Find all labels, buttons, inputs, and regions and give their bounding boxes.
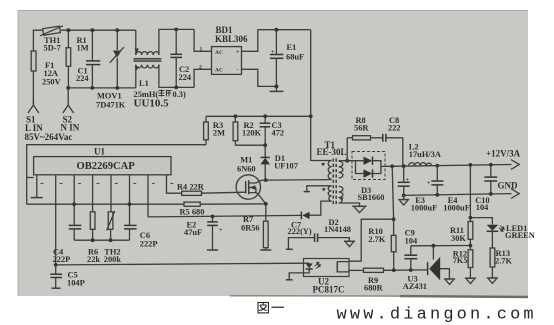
svg-text:1: 1 bbox=[200, 47, 203, 53]
shunt regulator U3 AZ431 bbox=[403, 246, 450, 291]
node R11/R12 junction bbox=[469, 244, 473, 248]
svg-text:AC: AC bbox=[215, 50, 223, 56]
svg-text:U1: U1 bbox=[94, 147, 105, 157]
svg-text:+: + bbox=[271, 49, 275, 55]
MOSFET M1 bbox=[236, 155, 266, 204]
wire: secondary bottom to ground bbox=[339, 203, 360, 206]
svg-text:2M: 2M bbox=[213, 128, 225, 137]
wire: C4/R6/TH2/C6 bottom rail bbox=[74, 238, 129, 242]
svg-text:472: 472 bbox=[272, 128, 285, 137]
capacitor C9 bbox=[404, 229, 418, 270]
capacitor C8 bbox=[383, 116, 403, 166]
U1 pin2 stub (FB line down) bbox=[55, 175, 57, 265]
node E3 bottom bbox=[402, 194, 406, 198]
ground (R13, chassis) bbox=[487, 278, 498, 283]
node pin6 bbox=[128, 202, 132, 206]
svg-text:UF107: UF107 bbox=[274, 162, 298, 171]
node R10 bottom bbox=[392, 268, 396, 272]
ground (C7 left bar) bbox=[286, 248, 293, 250]
ground (U2 bar) bbox=[286, 279, 293, 281]
node E2 bbox=[211, 215, 215, 219]
svg-text:104: 104 bbox=[405, 236, 418, 245]
capacitor C1 bbox=[76, 30, 100, 87]
U1 pin1 stub bbox=[36, 175, 38, 198]
diode D2 bbox=[301, 212, 351, 235]
svg-text:SB1660: SB1660 bbox=[358, 193, 385, 202]
capacitor C6 bbox=[124, 204, 157, 248]
wire: drain to primary bbox=[266, 179, 332, 182]
capacitor E1 bbox=[270, 28, 304, 87]
capacitor E3 bbox=[398, 166, 438, 213]
wire: FB line to optocoupler bbox=[56, 263, 304, 265]
wire: BD1 + output bbox=[242, 30, 311, 52]
terminal S1 bbox=[25, 98, 43, 133]
svg-text:+: + bbox=[427, 181, 431, 187]
svg-text:1M: 1M bbox=[77, 44, 89, 53]
resistor R8 bbox=[347, 116, 382, 140]
capacitor C5 bbox=[50, 265, 84, 288]
dual diode D3 bbox=[347, 152, 392, 203]
svg-text:+: + bbox=[406, 177, 410, 183]
svg-text:EE-30L: EE-30L bbox=[317, 147, 347, 157]
wire: to BD1 pin2 bbox=[194, 69, 211, 87]
node C1 bottom bbox=[91, 86, 95, 90]
svg-text:224: 224 bbox=[76, 74, 89, 83]
svg-text:GND: GND bbox=[498, 180, 519, 190]
thermistor TH2 bbox=[104, 211, 122, 264]
node C9 bottom bbox=[409, 268, 413, 272]
wire: U1 left stub bbox=[27, 177, 34, 179]
U1 pin8 stub (gate drive) bbox=[167, 175, 182, 193]
svg-text:30K: 30K bbox=[451, 234, 466, 243]
wire: D3 node down to feedback bbox=[392, 166, 393, 219]
capacitor C3 bbox=[260, 114, 284, 145]
svg-text:2: 2 bbox=[199, 65, 202, 71]
node U3 ref bbox=[432, 244, 436, 248]
node M1 source / R7 bbox=[264, 202, 268, 206]
inductor L2 bbox=[409, 142, 441, 166]
transformer T1 bbox=[317, 140, 347, 205]
ground (C7 right, chassis) bbox=[344, 241, 355, 246]
node R10 top bbox=[392, 217, 396, 221]
wire: sense/feedback line y204 bbox=[27, 203, 184, 205]
node L2 left / E3 / C8 bbox=[402, 164, 406, 168]
U1 pin7 stub (VCC) bbox=[147, 175, 149, 217]
svg-text:68uF: 68uF bbox=[286, 52, 304, 61]
svg-text:+: + bbox=[219, 228, 223, 234]
ground (secondary, chassis) bbox=[352, 206, 366, 212]
node C1 top bbox=[91, 28, 95, 32]
resistor R1 bbox=[66, 30, 89, 88]
wire: L input vertical bbox=[33, 30, 42, 105]
U1 pin3 stub bbox=[73, 175, 75, 204]
ground (U1 pin1 bar) bbox=[31, 197, 43, 199]
svg-text:2.7K: 2.7K bbox=[368, 235, 385, 244]
U1 pin6 stub bbox=[129, 175, 131, 204]
wire: top-left rail bbox=[61, 29, 136, 31]
wire: bottom-left rail bbox=[68, 87, 136, 89]
label GND with arrow bbox=[498, 180, 520, 198]
node E4 bottom bbox=[435, 193, 439, 197]
ground (E3, chassis) bbox=[398, 195, 409, 205]
svg-text:UU10.5: UU10.5 bbox=[134, 98, 170, 110]
ground (E1, primary bar) bbox=[270, 84, 284, 91]
capacitor C7 bbox=[288, 220, 350, 249]
node C3/D1/R2 bbox=[263, 143, 267, 147]
node M1 drain bbox=[264, 178, 268, 182]
optocoupler U2 PC817C bbox=[304, 259, 350, 295]
svg-text:0.3): 0.3) bbox=[173, 90, 186, 99]
svg-text:L1: L1 bbox=[139, 79, 149, 88]
node C5 / FB bbox=[54, 263, 58, 267]
svg-text:222P: 222P bbox=[53, 255, 71, 264]
svg-text:R4 22R: R4 22R bbox=[177, 182, 205, 191]
svg-text:222P: 222P bbox=[140, 239, 158, 248]
node HV / clamp rail bbox=[309, 114, 313, 118]
thermistor TH1 bbox=[40, 26, 63, 53]
resistor R2 bbox=[233, 114, 265, 145]
svg-text:222(Y): 222(Y) bbox=[288, 227, 312, 236]
svg-text:85V~264Vac: 85V~264Vac bbox=[25, 132, 73, 142]
LED LED1 bbox=[487, 224, 535, 248]
capacitor C4 bbox=[53, 204, 82, 264]
svg-text:120K: 120K bbox=[242, 129, 262, 138]
resistor R4 bbox=[177, 182, 246, 195]
svg-text:17uH/3A: 17uH/3A bbox=[409, 150, 441, 159]
node S2 top bbox=[66, 86, 70, 90]
wire: clamp rail bbox=[206, 115, 311, 117]
svg-text:224: 224 bbox=[179, 73, 192, 82]
capacitor E4 bbox=[427, 166, 470, 213]
varistor MOV1 bbox=[96, 30, 126, 109]
svg-text:5D-7: 5D-7 bbox=[44, 44, 61, 53]
svg-text:1000uF: 1000uF bbox=[443, 204, 470, 213]
common-mode choke L1 bbox=[134, 29, 195, 109]
resistor R12 bbox=[453, 250, 473, 278]
svg-text:KBL306: KBL306 bbox=[215, 34, 248, 44]
svg-text:6N60: 6N60 bbox=[237, 165, 256, 174]
svg-text:+12V/3A: +12V/3A bbox=[486, 149, 521, 159]
resistor R10 bbox=[368, 219, 396, 270]
svg-text:7K5: 7K5 bbox=[453, 256, 468, 265]
resistor R9 bbox=[349, 268, 428, 293]
wire: U2 cathode to ground bbox=[289, 273, 303, 280]
terminal S2 bbox=[61, 88, 80, 133]
resistor R3 bbox=[204, 116, 225, 144]
resistor R5 bbox=[180, 202, 266, 216]
svg-text:7D471K: 7D471K bbox=[96, 101, 126, 110]
wire: aux top to ground bbox=[307, 186, 332, 192]
resistor R11 bbox=[450, 218, 473, 250]
svg-text:47uF: 47uF bbox=[184, 228, 202, 237]
svg-text:GREEN: GREEN bbox=[505, 231, 535, 240]
svg-text:MOV1: MOV1 bbox=[97, 92, 122, 101]
svg-text:AZ431: AZ431 bbox=[403, 282, 427, 291]
svg-text:22k: 22k bbox=[87, 255, 100, 264]
node R11 top / LED branch bbox=[469, 216, 473, 220]
svg-text:+: + bbox=[236, 50, 240, 56]
wire: GND rail bbox=[404, 194, 512, 196]
wire: to BD1 pin1 bbox=[194, 29, 211, 51]
svg-text:PC817C: PC817C bbox=[313, 284, 345, 294]
svg-text:680R: 680R bbox=[364, 284, 384, 293]
U1 pin5 stub bbox=[110, 175, 112, 212]
wire: VCC line bbox=[148, 215, 301, 217]
capacitor C10 bbox=[475, 163, 497, 212]
svg-text:0R56: 0R56 bbox=[241, 223, 260, 232]
svg-text:E1: E1 bbox=[287, 43, 297, 52]
svg-text:250V: 250V bbox=[42, 78, 61, 87]
fuse F1 bbox=[31, 51, 60, 87]
ground (U3, chassis) bbox=[444, 279, 455, 284]
svg-text:104P: 104P bbox=[67, 279, 85, 288]
wire: R11 column from +12V bbox=[469, 163, 473, 218]
svg-text:AC: AC bbox=[215, 67, 223, 73]
U1 pin ticks bbox=[41, 183, 174, 185]
svg-text:-: - bbox=[237, 67, 239, 73]
svg-text:OB2269CAP: OB2269CAP bbox=[77, 161, 136, 172]
wire: secondary top node bbox=[339, 138, 349, 163]
bridge rectifier BD1 bbox=[199, 25, 248, 74]
label +12V/3A with arrow bbox=[486, 149, 521, 170]
node R1 top bbox=[67, 28, 71, 32]
svg-text:200k: 200k bbox=[104, 255, 122, 264]
svg-text:1000uF: 1000uF bbox=[411, 204, 438, 213]
svg-text:2.7K: 2.7K bbox=[495, 256, 512, 265]
ground (E2 bar) bbox=[207, 249, 218, 251]
capacitor E2 bbox=[184, 216, 223, 249]
node pin3 bbox=[72, 202, 76, 206]
wire: ref line bbox=[411, 245, 471, 247]
node D3 out bbox=[390, 164, 394, 168]
wire: HV vertical bbox=[311, 30, 332, 161]
svg-text:R5 680: R5 680 bbox=[180, 207, 205, 216]
svg-text:104: 104 bbox=[476, 203, 489, 212]
svg-text:1N4148: 1N4148 bbox=[324, 225, 351, 234]
wire: aux bottom to D2 bbox=[310, 201, 332, 215]
IC U1 OB2269CAP bbox=[34, 147, 171, 175]
resistor R6 bbox=[87, 212, 100, 264]
resistor R7 bbox=[241, 204, 268, 250]
node L2 right / E4 bbox=[435, 164, 439, 168]
ground (aux bar) bbox=[304, 191, 310, 193]
resistor R13 bbox=[490, 248, 512, 278]
U1 pin4 stub bbox=[92, 175, 94, 212]
svg-text:56R: 56R bbox=[354, 124, 369, 133]
ground (R7 bar) bbox=[260, 249, 271, 251]
wire: LED branch bbox=[470, 218, 492, 225]
wire: +12V rail bbox=[392, 165, 511, 167]
ground (R12, chassis) bbox=[465, 278, 476, 283]
svg-text:M1: M1 bbox=[240, 155, 252, 164]
wire: R3 to U1 startup line bbox=[27, 145, 206, 205]
capacitor C2 bbox=[170, 28, 191, 90]
node MOV1 top bbox=[115, 28, 119, 32]
svg-text:www.diangon.com: www.diangon.com bbox=[337, 306, 537, 325]
svg-text:222: 222 bbox=[388, 124, 401, 133]
wire: opto collector riser bbox=[349, 219, 394, 261]
node MOV1 bottom bbox=[115, 86, 119, 90]
wire: BD1 - output bbox=[242, 69, 277, 86]
caption 图一 bbox=[258, 303, 284, 313]
diode D1 bbox=[260, 145, 298, 180]
